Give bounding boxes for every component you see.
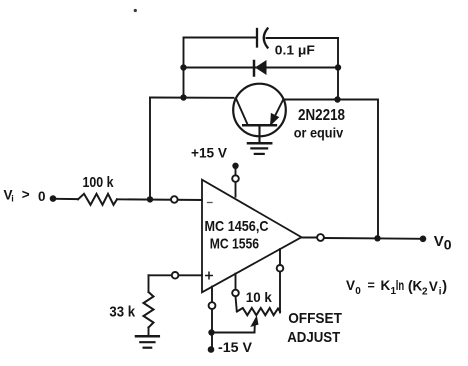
svg-text:or equiv: or equiv: [294, 125, 344, 141]
node junction diode right: [335, 64, 341, 70]
offset null terminal circle right: [277, 265, 284, 272]
input terminal dot Vi: [50, 195, 57, 202]
svg-text:+15 V: +15 V: [191, 145, 228, 161]
svg-text:-15 V: -15 V: [218, 340, 252, 355]
V+ pin lead to dot: [235, 168, 237, 175]
op-amp U1 triangle: [202, 180, 302, 293]
output terminal circle: [317, 234, 324, 241]
resistor R2 33 k: [144, 292, 154, 328]
node junction diode left: [180, 64, 186, 70]
svg-text:100 k: 100 k: [83, 174, 115, 191]
wire output to VO: [324, 237, 423, 240]
wire diode row: [184, 67, 339, 69]
transistor Q1 base stem: [258, 125, 260, 143]
wire R2 to ground: [148, 328, 150, 337]
resistor R1 100 k: [78, 194, 117, 205]
wire op-amp output: [302, 237, 318, 239]
offset null terminal circle left: [232, 290, 239, 297]
offset null lead to pot right: [279, 272, 281, 313]
wire R1 to op-amp inverting input: [117, 198, 202, 201]
wire capacitor top left: [184, 37, 258, 39]
svg-text:OFFSET: OFFSET: [288, 310, 342, 327]
wire emitter to output-node vertical: [286, 100, 379, 239]
transistor Q1 emitter inner lead: [271, 99, 284, 125]
stray speck: [134, 9, 137, 12]
svg-text:MC 1456,C: MC 1456,C: [205, 218, 269, 235]
V- pin stub: [211, 287, 213, 303]
ground (transistor): [248, 142, 271, 145]
svg-text:10 k: 10 k: [246, 289, 272, 305]
capacitor C1 right plate (curved): [264, 29, 268, 48]
node junction inverting input: [147, 196, 153, 202]
wire capacitor top right: [267, 37, 339, 39]
transistor Q1 emitter arrow: [271, 114, 278, 124]
V+ pin stub: [235, 182, 237, 197]
svg-text:V 0 = K: V 0 = K 1 ln ( K 2 V i ): [346, 278, 447, 298]
VO terminal dot: [420, 236, 427, 243]
wire to transistor collector: [150, 97, 234, 99]
V+ terminal dot: [232, 163, 238, 169]
op-amp minus sign: [208, 202, 213, 204]
svg-text:ADJUST: ADJUST: [287, 329, 340, 346]
transistor Q1 collector inner lead: [236, 99, 248, 126]
ground (33 k): [136, 335, 159, 338]
svg-text:2N2218: 2N2218: [298, 107, 345, 124]
svg-text:>: >: [22, 187, 30, 202]
node junction collector wire: [180, 94, 186, 100]
wire V- to -15 V node: [211, 309, 213, 350]
wire wiper to -15 V node: [212, 332, 255, 334]
svg-text:MC 1556: MC 1556: [210, 236, 259, 253]
-15 V terminal dot: [208, 346, 215, 353]
svg-text:0: 0: [444, 237, 452, 253]
svg-text:i: i: [11, 194, 14, 204]
wire non-inverting input: [149, 274, 203, 276]
transistor Q1 base bar: [243, 124, 276, 127]
wire feedback vertical left lower: [149, 98, 151, 200]
node junction emitter wire: [334, 96, 340, 102]
node junction output: [374, 235, 380, 241]
capacitor C1 left plate: [256, 29, 258, 47]
diode D1 triangle: [255, 60, 267, 75]
inverting input terminal circle: [171, 196, 178, 203]
svg-text:V: V: [434, 233, 444, 250]
potentiometer wiper arrow shaft: [254, 324, 256, 333]
offset null pin stub right: [279, 249, 281, 265]
wire to resistor 33 k: [148, 275, 150, 292]
offset null lead to pot left: [236, 296, 237, 311]
non-inverting input terminal circle: [172, 272, 179, 279]
potentiometer wiper arrowhead: [252, 317, 258, 326]
wire feedback vertical left upper: [183, 38, 185, 98]
potentiometer R3 10 k body: [237, 308, 280, 315]
node junction wiper/V-: [208, 329, 214, 335]
op-amp plus sign: [206, 272, 212, 278]
V- pin terminal circle: [209, 302, 216, 309]
offset null pin stub left: [235, 274, 237, 290]
diode D1 cathode bar: [253, 61, 256, 76]
svg-text:0: 0: [38, 189, 46, 204]
svg-text:33 k: 33 k: [109, 304, 135, 321]
V+ pin terminal circle: [232, 175, 239, 182]
wire feedback vertical right upper: [337, 38, 339, 100]
wire input to resistor R1: [56, 198, 78, 200]
svg-text:0.1 μF: 0.1 μF: [275, 43, 315, 58]
transistor Q1 body circle: [233, 84, 286, 137]
